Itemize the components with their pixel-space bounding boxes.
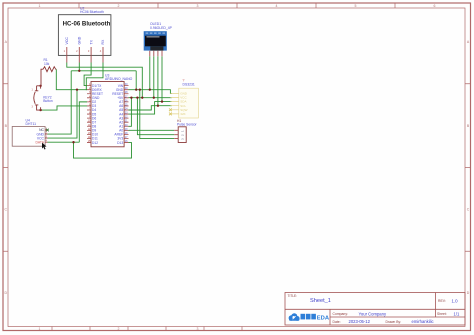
svg-text:D: D bbox=[5, 291, 8, 295]
svg-text:VCC: VCC bbox=[65, 37, 69, 45]
MCU U3 ARDUINO_NANO bbox=[87, 73, 133, 146]
svg-text:GND: GND bbox=[78, 36, 82, 44]
svg-text:EDA: EDA bbox=[317, 315, 330, 321]
wire A1 riser to +5V row bbox=[129, 98, 132, 127]
svg-text:32K: 32K bbox=[180, 112, 185, 116]
svg-text:D13: D13 bbox=[117, 141, 123, 145]
wire Pulse Sensor pin2 to +5V row bbox=[137, 98, 174, 135]
resistor R1 10k bbox=[41, 58, 56, 86]
wire DHT11 DATA branch to D13 bbox=[74, 142, 132, 158]
wire DHT11 DATA to D2 bbox=[48, 102, 88, 142]
svg-text:C: C bbox=[467, 208, 470, 212]
svg-text:Button: Button bbox=[43, 99, 53, 103]
svg-text:emirhankilic: emirhankilic bbox=[412, 319, 434, 324]
svg-text:5: 5 bbox=[355, 4, 357, 8]
wire HC06 RX to D0/RX bbox=[86, 63, 103, 90]
svg-text:6: 6 bbox=[434, 4, 436, 8]
pins bbox=[150, 51, 162, 57]
no-connect X marks bbox=[169, 108, 172, 115]
svg-text:Sheet_1: Sheet_1 bbox=[310, 298, 331, 304]
RTC module DS3231 (ghost part) bbox=[169, 79, 198, 118]
wire A0 to Pulse Sensor pin1 bbox=[129, 129, 175, 131]
wire GND net (HC06 GND / DHT11 GND / Arduino GND) bbox=[48, 63, 137, 135]
wire DHT11 VCC riser bbox=[48, 90, 78, 138]
svg-text:1/1: 1/1 bbox=[454, 311, 460, 316]
title block bbox=[285, 293, 465, 326]
svg-text:Pulse Sensor: Pulse Sensor bbox=[177, 123, 198, 127]
svg-text:4: 4 bbox=[276, 4, 278, 8]
wire OLED pin drops bbox=[150, 56, 162, 105]
svg-text:B: B bbox=[5, 124, 8, 128]
no-connect X on NC pin bbox=[46, 129, 49, 132]
svg-text:3: 3 bbox=[32, 106, 34, 109]
svg-text:0.96OLED_4P: 0.96OLED_4P bbox=[150, 26, 173, 30]
svg-text:1: 1 bbox=[39, 4, 41, 8]
wire +5V row to DS3231 pin2 bbox=[129, 97, 172, 99]
EasyEDA logo bbox=[289, 313, 330, 321]
left pin names bbox=[92, 84, 103, 145]
header H1 Pulse Sensor bbox=[174, 119, 197, 143]
svg-text:TX: TX bbox=[89, 39, 93, 44]
svg-text:Sheet:: Sheet: bbox=[437, 312, 447, 316]
svg-text:Date:: Date: bbox=[333, 320, 341, 324]
svg-text:HC06 Bluetooth: HC06 Bluetooth bbox=[80, 10, 104, 14]
pin 2 GND bbox=[78, 47, 80, 63]
right pin numbers bbox=[125, 83, 128, 143]
svg-text:1.0: 1.0 bbox=[452, 298, 459, 303]
right pin stubs bbox=[124, 86, 128, 143]
junction dots bbox=[39, 70, 163, 144]
wire HC06 TX to D1/TX bbox=[84, 63, 91, 86]
svg-text:Your Company: Your Company bbox=[359, 311, 387, 316]
svg-text:3: 3 bbox=[197, 4, 199, 8]
svg-text:Company:: Company: bbox=[333, 312, 349, 316]
wire GND row to DS3231 pin1 bbox=[129, 90, 172, 94]
pin 4 RX bbox=[102, 47, 104, 63]
wire KEY2 to D3 bbox=[41, 106, 87, 110]
svg-text:DS3231: DS3231 bbox=[183, 82, 195, 86]
right pin names bbox=[112, 84, 124, 145]
wire HC06 VCC net (to +5V rail) bbox=[67, 63, 143, 98]
svg-text:B: B bbox=[467, 124, 470, 128]
svg-text:A: A bbox=[467, 40, 470, 44]
svg-text:2: 2 bbox=[118, 327, 120, 331]
svg-text:HC-06 Bluetooth: HC-06 Bluetooth bbox=[63, 20, 111, 27]
left pin stubs bbox=[87, 86, 91, 143]
wire A5 SCL net to DS3231 pin4 bbox=[129, 106, 172, 110]
wire R1 pullup net to D0/RX bbox=[56, 69, 87, 89]
svg-text:D: D bbox=[467, 291, 470, 295]
wire Pulse Sensor pin3 to GND row bbox=[140, 90, 174, 139]
svg-text:1: 1 bbox=[32, 88, 34, 91]
sensor U4 DHT11 bbox=[12, 118, 49, 146]
svg-text:TITLE:: TITLE: bbox=[288, 294, 298, 298]
svg-text:3: 3 bbox=[197, 327, 199, 331]
pushbutton KEY2 bbox=[32, 86, 53, 110]
svg-text:10k: 10k bbox=[44, 62, 50, 66]
pin 3 TX bbox=[90, 47, 92, 63]
svg-text:DHT11: DHT11 bbox=[26, 122, 37, 126]
svg-text:2: 2 bbox=[118, 4, 120, 8]
wire A4 SDA net to DS3231 pin3 bbox=[129, 102, 172, 114]
module U2 HC-06 Bluetooth bbox=[58, 6, 111, 62]
svg-text:RX: RX bbox=[101, 39, 105, 45]
display OLED1 0.96OLED_4P bbox=[144, 22, 173, 56]
svg-text:1: 1 bbox=[39, 327, 41, 331]
pin 1 VCC bbox=[66, 47, 68, 63]
mouse cursor bbox=[42, 143, 47, 150]
svg-text:2023-05-12: 2023-05-12 bbox=[349, 319, 371, 324]
svg-text:A: A bbox=[5, 40, 8, 44]
svg-text:C: C bbox=[5, 208, 8, 212]
svg-text:ARDUINO_NANO: ARDUINO_NANO bbox=[105, 77, 133, 81]
svg-text:D12: D12 bbox=[92, 141, 98, 145]
pin stubs bbox=[45, 130, 47, 142]
left pin numbers bbox=[88, 83, 91, 143]
svg-text:Drawn By:: Drawn By: bbox=[386, 320, 402, 324]
svg-text:REV:: REV: bbox=[438, 299, 446, 303]
